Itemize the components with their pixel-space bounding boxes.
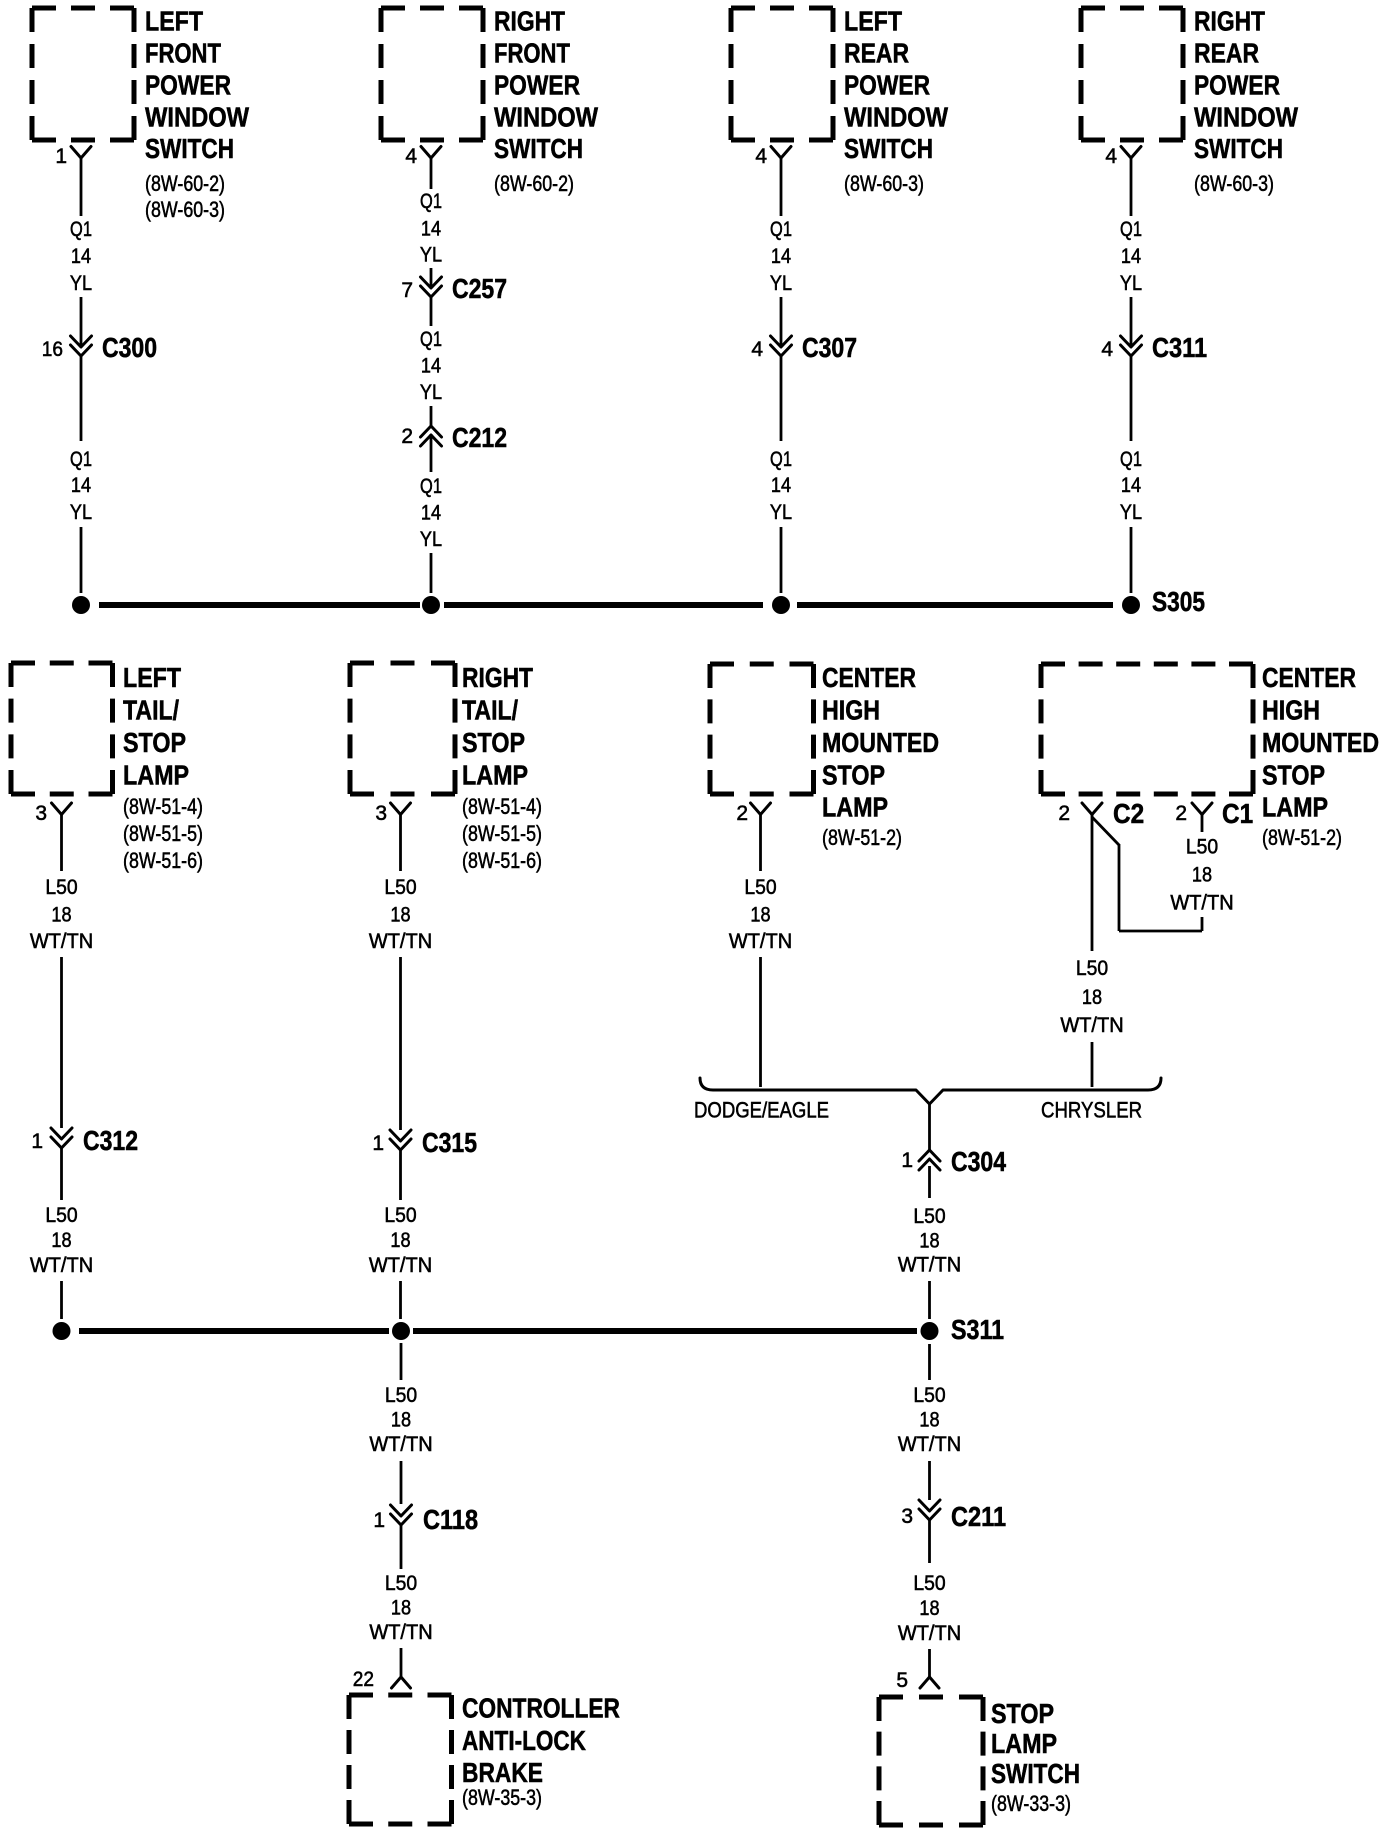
- svg-text:L50: L50: [385, 1572, 417, 1595]
- svg-text:YL: YL: [1120, 501, 1142, 525]
- svg-text:L50: L50: [45, 876, 77, 899]
- svg-text:18: 18: [1082, 986, 1102, 1010]
- svg-text:18: 18: [390, 1229, 410, 1253]
- svg-text:SWITCH: SWITCH: [494, 134, 583, 165]
- svg-text:(8W-33-3): (8W-33-3): [991, 1792, 1071, 1816]
- svg-text:WT/TN: WT/TN: [369, 1621, 432, 1645]
- svg-text:2: 2: [736, 802, 748, 825]
- svg-text:Q1: Q1: [770, 447, 792, 470]
- svg-text:14: 14: [771, 474, 791, 498]
- svg-text:C1: C1: [1222, 797, 1253, 829]
- svg-text:3: 3: [901, 1505, 913, 1528]
- svg-text:L50: L50: [45, 1204, 77, 1227]
- svg-text:(8W-51-2): (8W-51-2): [822, 826, 902, 850]
- svg-text:WT/TN: WT/TN: [898, 1622, 961, 1646]
- svg-text:SWITCH: SWITCH: [1194, 134, 1283, 165]
- svg-text:1: 1: [372, 1132, 384, 1155]
- svg-text:5: 5: [896, 1669, 908, 1692]
- svg-text:L50: L50: [1186, 836, 1218, 859]
- svg-text:(8W-51-5): (8W-51-5): [462, 822, 542, 846]
- svg-text:FRONT: FRONT: [145, 38, 221, 69]
- svg-text:Q1: Q1: [1120, 447, 1142, 470]
- svg-text:WINDOW: WINDOW: [145, 103, 250, 133]
- svg-text:WINDOW: WINDOW: [494, 103, 599, 133]
- svg-text:BRAKE: BRAKE: [462, 1758, 543, 1789]
- svg-text:Q1: Q1: [420, 474, 442, 497]
- svg-text:WT/TN: WT/TN: [369, 930, 432, 954]
- svg-text:C2: C2: [1113, 797, 1144, 829]
- svg-text:YL: YL: [70, 272, 92, 296]
- svg-text:STOP: STOP: [822, 761, 885, 791]
- svg-text:WT/TN: WT/TN: [30, 930, 93, 954]
- svg-text:WT/TN: WT/TN: [729, 930, 792, 954]
- svg-text:(8W-51-4): (8W-51-4): [462, 795, 542, 819]
- svg-text:18: 18: [919, 1229, 939, 1253]
- svg-text:Q1: Q1: [420, 189, 442, 212]
- svg-text:TAIL/: TAIL/: [123, 696, 179, 727]
- svg-text:16: 16: [42, 338, 63, 361]
- svg-text:ANTI-LOCK: ANTI-LOCK: [462, 1726, 587, 1757]
- svg-text:L50: L50: [1076, 957, 1108, 980]
- svg-text:YL: YL: [770, 272, 792, 296]
- svg-text:CONTROLLER: CONTROLLER: [462, 1693, 620, 1724]
- svg-text:C307: C307: [802, 333, 857, 364]
- svg-text:18: 18: [390, 903, 410, 927]
- svg-text:4: 4: [1105, 145, 1117, 168]
- svg-text:L50: L50: [913, 1205, 945, 1228]
- svg-text:C315: C315: [422, 1128, 477, 1159]
- svg-text:LAMP: LAMP: [462, 761, 528, 791]
- svg-text:(8W-51-6): (8W-51-6): [123, 849, 203, 873]
- svg-text:18: 18: [919, 1408, 939, 1432]
- svg-text:STOP: STOP: [991, 1699, 1054, 1729]
- svg-text:LAMP: LAMP: [123, 761, 189, 791]
- svg-text:REAR: REAR: [844, 38, 909, 69]
- svg-text:22: 22: [353, 1668, 374, 1691]
- svg-text:C212: C212: [452, 423, 507, 454]
- svg-text:WT/TN: WT/TN: [369, 1254, 432, 1278]
- svg-text:1: 1: [373, 1509, 385, 1532]
- svg-text:(8W-60-3): (8W-60-3): [844, 172, 924, 196]
- svg-text:Q1: Q1: [70, 217, 92, 240]
- svg-text:(8W-60-2): (8W-60-2): [494, 172, 574, 196]
- svg-text:L50: L50: [913, 1384, 945, 1407]
- svg-text:18: 18: [919, 1597, 939, 1621]
- svg-text:YL: YL: [420, 381, 442, 405]
- svg-text:(8W-51-6): (8W-51-6): [462, 849, 542, 873]
- svg-text:LAMP: LAMP: [1262, 793, 1328, 823]
- svg-text:18: 18: [51, 903, 71, 927]
- svg-text:L50: L50: [384, 876, 416, 899]
- svg-text:CENTER: CENTER: [822, 663, 916, 694]
- svg-text:POWER: POWER: [844, 70, 930, 101]
- svg-text:MOUNTED: MOUNTED: [1262, 728, 1379, 759]
- svg-text:18: 18: [51, 1229, 71, 1253]
- svg-text:2: 2: [1058, 802, 1070, 825]
- svg-text:LAMP: LAMP: [822, 793, 888, 823]
- svg-text:18: 18: [391, 1596, 411, 1620]
- svg-text:(8W-51-5): (8W-51-5): [123, 822, 203, 846]
- svg-text:14: 14: [1121, 245, 1141, 269]
- svg-text:14: 14: [421, 354, 441, 378]
- svg-text:TAIL/: TAIL/: [462, 696, 518, 727]
- svg-text:MOUNTED: MOUNTED: [822, 728, 939, 759]
- svg-text:3: 3: [35, 802, 47, 825]
- svg-text:Q1: Q1: [770, 217, 792, 240]
- svg-text:4: 4: [405, 145, 417, 168]
- svg-text:(8W-60-3): (8W-60-3): [145, 198, 225, 222]
- svg-text:1: 1: [901, 1149, 913, 1172]
- svg-text:7: 7: [401, 279, 413, 302]
- svg-text:WT/TN: WT/TN: [898, 1253, 961, 1277]
- svg-text:RIGHT: RIGHT: [494, 6, 565, 37]
- svg-text:YL: YL: [420, 243, 442, 267]
- svg-text:Q1: Q1: [1120, 217, 1142, 240]
- svg-text:HIGH: HIGH: [1262, 696, 1320, 726]
- svg-text:14: 14: [771, 245, 791, 269]
- svg-text:WT/TN: WT/TN: [1170, 891, 1233, 915]
- svg-text:Q1: Q1: [420, 327, 442, 350]
- svg-text:SWITCH: SWITCH: [145, 134, 234, 165]
- svg-text:18: 18: [750, 903, 770, 927]
- svg-text:(8W-60-3): (8W-60-3): [1194, 172, 1274, 196]
- svg-text:YL: YL: [770, 501, 792, 525]
- svg-text:L50: L50: [744, 876, 776, 899]
- svg-text:3: 3: [375, 802, 387, 825]
- svg-text:14: 14: [71, 245, 91, 269]
- svg-text:18: 18: [391, 1408, 411, 1432]
- svg-text:14: 14: [1121, 474, 1141, 498]
- svg-text:LEFT: LEFT: [145, 7, 203, 37]
- svg-text:POWER: POWER: [1194, 70, 1280, 101]
- svg-text:CENTER: CENTER: [1262, 663, 1356, 694]
- svg-text:SWITCH: SWITCH: [991, 1759, 1080, 1790]
- svg-text:LEFT: LEFT: [123, 663, 181, 693]
- svg-text:(8W-60-2): (8W-60-2): [145, 172, 225, 196]
- svg-text:(8W-51-4): (8W-51-4): [123, 795, 203, 819]
- svg-text:YL: YL: [70, 501, 92, 525]
- svg-text:LEFT: LEFT: [844, 7, 902, 37]
- svg-text:(8W-35-3): (8W-35-3): [462, 1786, 542, 1810]
- svg-text:STOP: STOP: [462, 728, 525, 758]
- svg-text:4: 4: [751, 338, 763, 361]
- svg-text:14: 14: [421, 501, 441, 525]
- svg-text:C211: C211: [951, 1502, 1006, 1532]
- svg-text:L50: L50: [385, 1384, 417, 1407]
- svg-text:WINDOW: WINDOW: [1194, 103, 1299, 133]
- svg-text:1: 1: [55, 145, 67, 168]
- svg-text:POWER: POWER: [494, 70, 580, 101]
- svg-text:REAR: REAR: [1194, 38, 1259, 69]
- svg-text:YL: YL: [420, 528, 442, 552]
- svg-text:2: 2: [401, 425, 413, 448]
- svg-text:POWER: POWER: [145, 70, 231, 101]
- svg-text:WT/TN: WT/TN: [898, 1433, 961, 1457]
- svg-text:14: 14: [421, 217, 441, 241]
- svg-text:C304: C304: [951, 1147, 1007, 1178]
- svg-text:L50: L50: [913, 1572, 945, 1595]
- svg-text:LAMP: LAMP: [991, 1729, 1057, 1759]
- svg-text:4: 4: [1101, 338, 1113, 361]
- svg-text:RIGHT: RIGHT: [1194, 6, 1265, 37]
- svg-text:S311: S311: [951, 1315, 1004, 1345]
- svg-text:C300: C300: [102, 333, 157, 364]
- svg-text:S305: S305: [1152, 587, 1205, 618]
- svg-text:STOP: STOP: [1262, 761, 1325, 791]
- svg-text:CHRYSLER: CHRYSLER: [1041, 1099, 1142, 1123]
- svg-text:18: 18: [1192, 863, 1212, 887]
- svg-text:YL: YL: [1120, 272, 1142, 296]
- svg-text:(8W-51-2): (8W-51-2): [1262, 826, 1342, 850]
- svg-text:1: 1: [31, 1130, 43, 1153]
- svg-text:Q1: Q1: [70, 447, 92, 470]
- svg-text:C257: C257: [452, 274, 507, 305]
- svg-text:C118: C118: [423, 1505, 478, 1535]
- svg-text:WT/TN: WT/TN: [30, 1254, 93, 1278]
- svg-text:WINDOW: WINDOW: [844, 103, 949, 133]
- svg-text:L50: L50: [384, 1204, 416, 1227]
- svg-text:RIGHT: RIGHT: [462, 663, 533, 694]
- svg-text:SWITCH: SWITCH: [844, 134, 933, 165]
- svg-text:WT/TN: WT/TN: [369, 1433, 432, 1457]
- svg-text:DODGE/EAGLE: DODGE/EAGLE: [694, 1099, 829, 1123]
- svg-text:STOP: STOP: [123, 728, 186, 758]
- svg-text:4: 4: [755, 145, 767, 168]
- svg-text:HIGH: HIGH: [822, 696, 880, 726]
- svg-text:C311: C311: [1152, 333, 1207, 363]
- svg-text:WT/TN: WT/TN: [1060, 1014, 1123, 1038]
- svg-text:2: 2: [1175, 802, 1187, 825]
- svg-text:C312: C312: [83, 1126, 138, 1157]
- svg-text:FRONT: FRONT: [494, 38, 570, 69]
- svg-text:14: 14: [71, 474, 91, 498]
